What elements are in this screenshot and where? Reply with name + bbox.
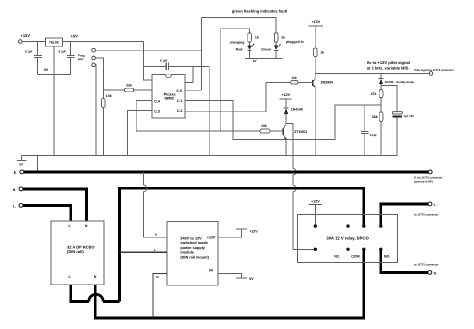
svg-text:1k: 1k xyxy=(281,35,285,39)
wire psu 0V output to symbol xyxy=(218,273,241,278)
svg-text:N: N xyxy=(85,224,88,228)
node +12V input terminal xyxy=(18,40,22,44)
svg-text:plugged in: plugged in xyxy=(286,40,304,44)
svg-text:240V to 12V: 240V to 12V xyxy=(180,237,202,241)
wire relay NO bottom to N out xyxy=(381,249,428,272)
wire ZTX emitter to 0V rail xyxy=(285,139,287,156)
svg-text:BAT85 - shottky diode: BAT85 - shottky diode xyxy=(385,80,415,84)
svg-text:0.1µF: 0.1µF xyxy=(160,59,168,63)
svg-text:L: L xyxy=(434,203,437,207)
svg-text:C.2: C.2 xyxy=(177,109,183,113)
node relay pin coil bottom xyxy=(314,248,317,251)
svg-text:1µF 25V: 1µF 25V xyxy=(404,114,415,118)
svg-text:power supply: power supply xyxy=(180,246,205,250)
wire green LED feed from C.0 net xyxy=(201,17,276,33)
node N output terminal xyxy=(428,271,432,275)
svg-text:+12V: +12V xyxy=(249,230,258,234)
wire 1k down to pilot node xyxy=(314,57,316,80)
wire C.3 to 0V rail xyxy=(128,111,152,156)
svg-text:0.1µF: 0.1µF xyxy=(370,133,377,137)
svg-text:port: port xyxy=(78,57,84,61)
wire N in to RCBO xyxy=(23,189,86,221)
node relay pin coil top xyxy=(314,224,317,227)
relay box xyxy=(298,215,398,263)
resistor R7 10k 2N3904 base xyxy=(291,81,298,85)
wire C.1 to divider ADC xyxy=(185,101,381,140)
regulator U2 78L05 xyxy=(45,38,62,46)
node +12V bar psu xyxy=(236,228,247,230)
node E input terminal xyxy=(20,170,24,174)
svg-text:C.4: C.4 xyxy=(154,99,160,103)
wire psu +12V output to symbol xyxy=(218,229,241,237)
resistor R5 10k ZTX base xyxy=(260,129,270,133)
wire 0V loop under regulator xyxy=(38,73,71,75)
resistor R2 1k green LED xyxy=(274,33,278,42)
svg-text:to J1772 connector: to J1772 connector xyxy=(414,214,439,217)
svg-text:+12V: +12V xyxy=(281,93,290,97)
svg-text:charging: charging xyxy=(230,40,245,44)
node +12V bar relay xyxy=(309,203,323,205)
wire junction to electrolytic xyxy=(381,86,397,112)
svg-text:10k: 10k xyxy=(261,124,267,128)
svg-text:C.3: C.3 xyxy=(154,109,160,113)
svg-text:0.1µF: 0.1µF xyxy=(59,50,67,54)
svg-text:NC: NC xyxy=(334,254,340,258)
svg-text:module: module xyxy=(180,251,194,255)
breaker RCBO box xyxy=(51,221,104,285)
node N input terminal xyxy=(19,187,23,191)
capacitor C2 0.1uF output xyxy=(70,42,72,55)
resistor R3 10k pulldown xyxy=(102,99,106,108)
svg-text:30A 12 V relay, DPCO: 30A 12 V relay, DPCO xyxy=(326,235,369,240)
wire chip 0V down to rail xyxy=(208,66,210,155)
wire +12V to coil pin xyxy=(314,204,316,226)
node prog port serial-in terminal xyxy=(92,56,96,60)
wire E branch to PSU with hop over L line xyxy=(143,172,145,185)
node relay pin NC bottom xyxy=(346,248,349,251)
wire pilot line to output terminal xyxy=(315,72,429,74)
LED D2 Green xyxy=(275,42,277,45)
node relay pin COM bottom xyxy=(362,248,365,251)
wire prog 0V terminal down to 0V rail xyxy=(94,65,97,156)
resistor R9 36k xyxy=(379,112,383,122)
psu module box xyxy=(167,222,218,286)
wire serial out line to C.0 xyxy=(95,49,201,51)
svg-text:0V: 0V xyxy=(209,269,214,273)
svg-text:0V: 0V xyxy=(253,59,258,63)
wire 2N3904 emitter to 0V rail xyxy=(314,87,316,156)
wire red LED feed from C.4 net xyxy=(220,29,222,131)
svg-text:2N3904: 2N3904 xyxy=(321,81,334,85)
capacitor C3 0.1uF chip decoupling xyxy=(144,65,167,67)
svg-text:Red: Red xyxy=(236,47,243,51)
resistor R6 1k pilot xyxy=(313,48,317,57)
wire 22k to chip pin2 xyxy=(134,89,152,91)
svg-text:0V: 0V xyxy=(249,277,254,281)
wire 10k to ZTX base xyxy=(270,130,283,132)
svg-text:L: L xyxy=(13,204,16,208)
svg-text:COM: COM xyxy=(351,254,359,258)
svg-text:green flashing indicates fault: green flashing indicates fault xyxy=(232,8,288,13)
wire earth E line xyxy=(24,170,429,173)
node +12V bar pilot xyxy=(309,25,323,27)
wire relay coil vertical with hops over E and L lines xyxy=(292,124,294,169)
wire C.2 to 2N3904 base resistor xyxy=(185,82,291,111)
svg-text:to J1772 connector: to J1772 connector xyxy=(414,264,439,267)
svg-text:L: L xyxy=(69,224,72,228)
svg-text:C.1: C.1 xyxy=(177,99,183,103)
svg-text:switched mode: switched mode xyxy=(180,241,207,245)
svg-text:E via J1772 connector: E via J1772 connector xyxy=(414,176,442,179)
diode D4 BAT85 xyxy=(380,73,382,78)
node relay pin NC top xyxy=(346,224,349,227)
svg-text:N: N xyxy=(434,271,437,275)
wire green fault vertical from C.0 xyxy=(200,17,202,90)
node E output terminal xyxy=(428,170,432,174)
node relay pin COM top xyxy=(362,224,365,227)
wire coil bottom pin to transistor net xyxy=(293,248,314,250)
wire +12V input to regulator xyxy=(22,41,45,43)
svg-text:ZTX651: ZTX651 xyxy=(294,130,307,134)
resistor R8 47k xyxy=(379,90,383,98)
capacitor C5 1uF 25V electrolytic xyxy=(393,112,403,114)
svg-text:22k: 22k xyxy=(126,84,132,88)
wire RCBO N out bottom run xyxy=(95,249,364,318)
node prog port 0V terminal xyxy=(92,63,96,67)
svg-text:+5V: +5V xyxy=(71,33,79,38)
capacitor C1 0.1uF input xyxy=(37,42,39,56)
LED D1 Red xyxy=(249,42,251,45)
svg-text:0V: 0V xyxy=(44,68,49,72)
svg-text:E: E xyxy=(155,233,157,237)
svg-text:47k: 47k xyxy=(371,92,377,96)
wire serial in to 22k junction xyxy=(95,58,103,99)
node prog port serial-out terminal xyxy=(92,48,96,52)
wire 0V rail bond to earth xyxy=(37,156,39,171)
svg-text:(ground in PE): (ground in PE) xyxy=(414,181,433,184)
svg-text:Pilot signal to J1772 connecto: Pilot signal to J1772 connector xyxy=(414,69,454,72)
node relay pin NO top xyxy=(379,224,382,227)
svg-text:36k: 36k xyxy=(372,115,378,119)
wire L branch to PSU xyxy=(119,251,167,253)
op-amp U1 Picaxe 08M2 xyxy=(152,74,185,118)
svg-text:78L05: 78L05 xyxy=(49,41,59,45)
ground 0V symbol left xyxy=(21,156,23,161)
capacitor C4 0.1uF pilot filter xyxy=(364,105,366,131)
wire L vertical up and across to relay COM xyxy=(119,188,363,301)
svg-text:1N4148: 1N4148 xyxy=(291,107,303,111)
wire serial-in junction to 22k xyxy=(103,89,124,91)
svg-text:0v to +12V pilot signal: 0v to +12V pilot signal xyxy=(367,60,410,65)
transistor Q2 ZTX651 xyxy=(282,128,284,135)
svg-text:L: L xyxy=(154,248,156,252)
node pilot output terminal xyxy=(429,72,433,76)
svg-text:1k: 1k xyxy=(255,35,259,39)
svg-text:L: L xyxy=(69,275,72,279)
svg-text:N: N xyxy=(94,275,97,279)
svg-text:N: N xyxy=(156,275,158,279)
wire C.4 to relay transistor net xyxy=(136,100,260,131)
svg-text:+12V: +12V xyxy=(207,235,216,239)
node L output terminal xyxy=(428,202,432,206)
wire relay NO top to L out xyxy=(381,204,428,226)
wire 0V rail xyxy=(22,155,398,157)
ground 0V bar psu xyxy=(236,277,247,279)
svg-text:+12V: +12V xyxy=(311,20,320,24)
svg-text:0.1µF: 0.1µF xyxy=(25,50,33,54)
svg-text:E: E xyxy=(14,171,17,175)
svg-text:(DIN rail mount): (DIN rail mount) xyxy=(180,255,209,259)
wire C.0 to serial/green vertical xyxy=(185,89,201,91)
svg-text:(DIN rail): (DIN rail) xyxy=(67,249,84,254)
svg-text:10k: 10k xyxy=(106,94,112,98)
svg-text:08M2: 08M2 xyxy=(164,96,174,100)
svg-text:10k: 10k xyxy=(291,76,297,80)
svg-text:1k: 1k xyxy=(320,51,324,55)
wire +5V down to chip pin1 xyxy=(144,42,152,80)
wire RCBO L out bottom run with hop over N xyxy=(71,285,89,302)
node +12V bar ZTX xyxy=(279,98,291,100)
svg-text:0V: 0V xyxy=(19,163,24,167)
svg-text:N: N xyxy=(13,188,16,192)
wire regulator output +5V rail xyxy=(62,41,143,43)
resistor R1 1k red LED xyxy=(248,33,252,42)
wire L in to RCBO xyxy=(23,205,71,221)
wire collector node to relay coil xyxy=(286,123,293,125)
svg-text:Green: Green xyxy=(261,47,271,51)
svg-text:at 1 kHz, variable M/S: at 1 kHz, variable M/S xyxy=(367,66,409,71)
transistor Q1 2N3904 xyxy=(312,80,314,86)
node LED 0V bar xyxy=(245,57,282,59)
wire chip pin8 0V to cap run xyxy=(185,66,193,82)
node L input terminal xyxy=(19,204,23,208)
svg-text:C.0: C.0 xyxy=(176,89,182,93)
svg-text:+12V: +12V xyxy=(21,33,31,38)
diode D3 1N4148 xyxy=(284,107,289,109)
resistor R4 22k serial in xyxy=(125,88,134,92)
wire regulator ground pin down to 0V rail xyxy=(53,46,55,155)
svg-text:NO: NO xyxy=(384,254,390,258)
svg-text:+12V: +12V xyxy=(311,200,320,204)
node relay pin NO bottom xyxy=(379,248,382,251)
wire N branch to PSU xyxy=(153,273,167,318)
